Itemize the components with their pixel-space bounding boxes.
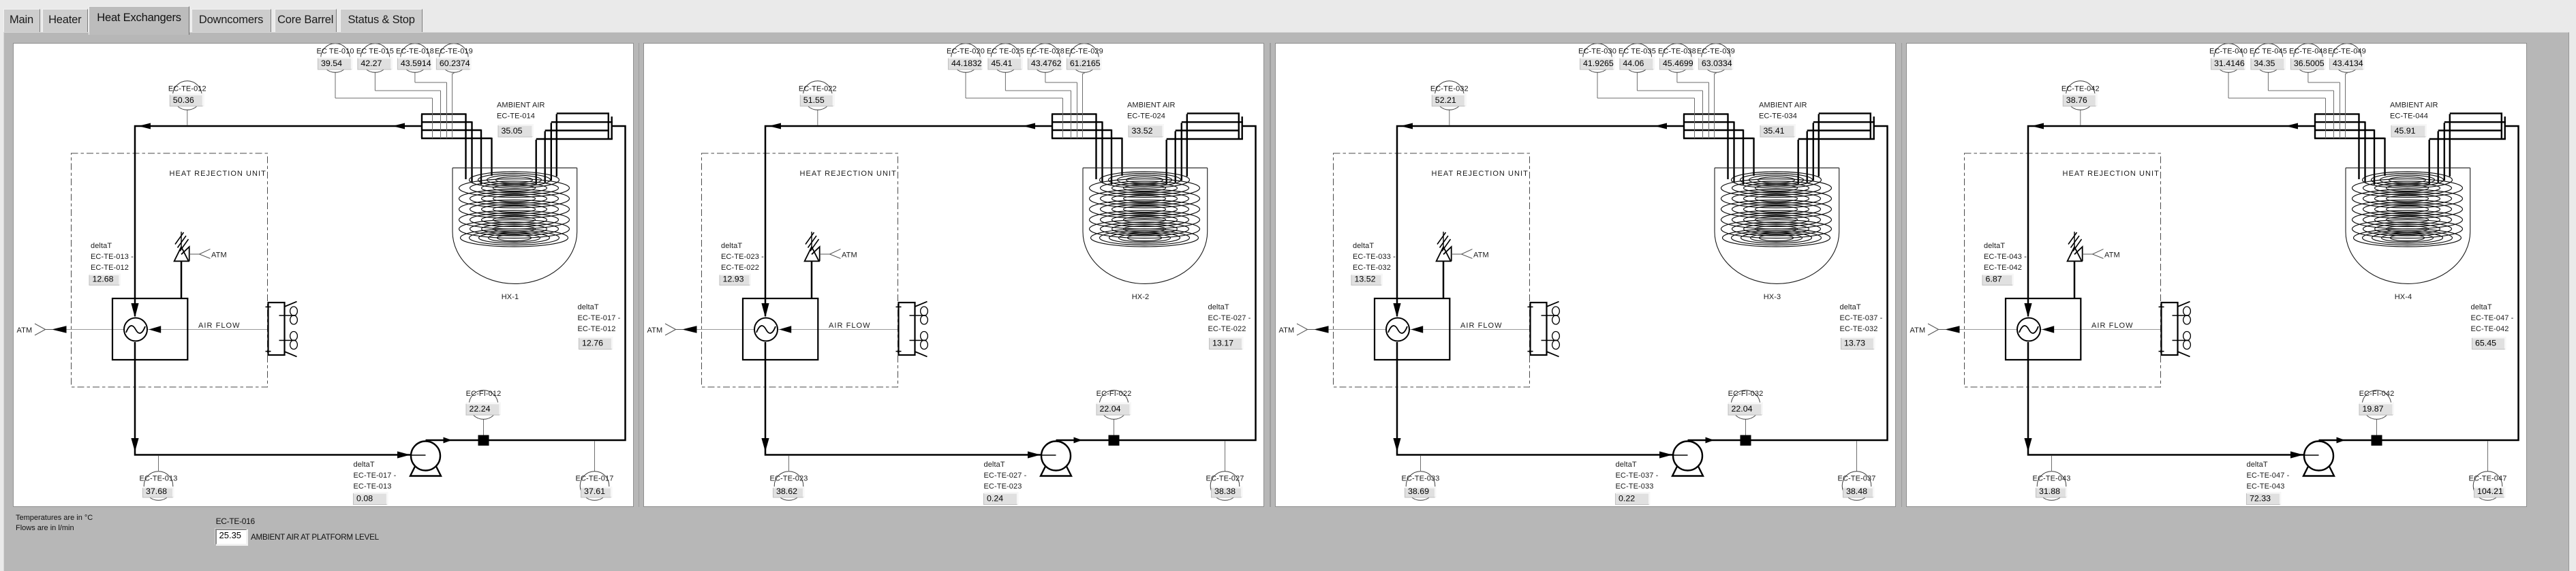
fan blades bottom — [290, 332, 297, 350]
svg-text:EC-TE-018: EC-TE-018 — [395, 48, 433, 56]
vessel shell HX — [453, 168, 577, 283]
instrument bubble EC-TE-040 — [2209, 44, 2325, 138]
instrument bubble EC TE-035 — [1619, 44, 1703, 138]
svg-text:EC-TE-032: EC-TE-032 — [1430, 85, 1469, 93]
svg-text:12.93: 12.93 — [723, 275, 744, 284]
svg-text:31.4146: 31.4146 — [2214, 59, 2245, 68]
label HX-1 — [501, 293, 518, 301]
svg-text:43.5914: 43.5914 — [400, 59, 431, 68]
flow sensor square EC-FI-022 — [1109, 435, 1120, 446]
instrument bubble EC-TE-043 — [2033, 456, 2071, 500]
label AIR FLOW — [198, 322, 241, 330]
instrument bubble EC-TE-029 — [1065, 44, 1103, 138]
helical coil tubes — [459, 172, 569, 247]
flow arrow left near corner — [138, 123, 151, 129]
wire coil feed pipes right — [2429, 114, 2450, 184]
svg-text:35.41: 35.41 — [1763, 126, 1784, 136]
label deltaT left block — [1351, 242, 1396, 285]
label temperature units note — [16, 513, 93, 534]
svg-text:HX-3: HX-3 — [1764, 293, 1781, 301]
svg-text:22.24: 22.24 — [469, 404, 490, 414]
fan blades bottom — [921, 332, 928, 350]
instrument bubble EC-TE-049 — [2328, 44, 2366, 138]
flow arrow left air out of blower — [1411, 326, 1423, 333]
node ATM vent right — [189, 249, 226, 260]
svg-text:deltaT: deltaT — [577, 303, 598, 311]
pump — [1041, 442, 1071, 476]
svg-text:EC-TE-024: EC-TE-024 — [1127, 112, 1165, 121]
helical coil tubes — [1090, 172, 1200, 247]
wire coil feed pipes left — [2359, 113, 2385, 185]
wire return pipe bottom — [765, 342, 1041, 455]
label AIR FLOW — [1460, 322, 1503, 330]
svg-text:ATM: ATM — [1278, 326, 1294, 335]
pump — [1672, 442, 1703, 476]
svg-text:45.41: 45.41 — [992, 59, 1013, 68]
svg-text:52.21: 52.21 — [1435, 95, 1456, 105]
svg-text:13.73: 13.73 — [1844, 339, 1865, 348]
svg-text:38.62: 38.62 — [776, 487, 797, 496]
instrument bubble EC-FI-032 — [1728, 390, 1764, 435]
label deltaT right block — [577, 303, 620, 350]
node ATM exhaust left — [647, 324, 697, 335]
svg-text:ATM: ATM — [16, 326, 32, 335]
svg-text:22.04: 22.04 — [1731, 404, 1752, 414]
flow arrow right into pump — [2290, 451, 2303, 458]
svg-text:EC TE-045: EC TE-045 — [2250, 48, 2287, 56]
svg-text:AIR FLOW: AIR FLOW — [198, 322, 241, 330]
relief vent valve — [805, 232, 820, 298]
svg-text:EC-TE-037: EC-TE-037 — [1837, 475, 1875, 483]
svg-text:EC TE-015: EC TE-015 — [356, 48, 393, 56]
svg-text:ATM: ATM — [211, 251, 227, 260]
svg-text:deltaT: deltaT — [1984, 242, 2005, 250]
instrument bubble EC-TE-023 — [770, 456, 808, 500]
panel HX-4 schematic — [1906, 43, 2527, 507]
svg-text:deltaT: deltaT — [2247, 461, 2268, 469]
svg-text:ATM: ATM — [2104, 251, 2120, 260]
flow arrow left mid pipe — [393, 123, 405, 129]
pump — [410, 442, 441, 476]
right tube header bundle — [536, 113, 612, 139]
svg-text:EC-TE-027 -: EC-TE-027 - — [1208, 314, 1251, 322]
svg-text:50.36: 50.36 — [172, 95, 194, 105]
instrument bubble EC TE-045 — [2250, 44, 2334, 138]
wire coil feed pipes right — [536, 114, 556, 184]
svg-text:EC-TE-028: EC-TE-028 — [1026, 48, 1064, 56]
svg-text:EC-TE-043: EC-TE-043 — [2247, 482, 2285, 491]
svg-text:45.91: 45.91 — [2395, 126, 2416, 136]
svg-text:EC-FI-022: EC-FI-022 — [1097, 390, 1132, 398]
instrument bubble EC-TE-018 — [395, 44, 446, 138]
flow arrow down into heat rejection unit — [1393, 438, 1400, 452]
instrument bubble EC-TE-019 — [434, 44, 472, 138]
tab Downcomers — [191, 9, 271, 32]
instrument bubble EC-FI-042 — [2359, 390, 2395, 435]
flow arrow left near corner — [1400, 123, 1413, 129]
svg-text:44.06: 44.06 — [1623, 59, 1644, 68]
flow arrow down into heat rejection unit — [131, 438, 138, 452]
left tube header bundle — [1052, 114, 1122, 138]
svg-text:13.52: 13.52 — [1354, 275, 1375, 284]
svg-text:HEAT REJECTION UNIT: HEAT REJECTION UNIT — [800, 170, 897, 178]
heat rejection unit dashed enclosure — [1965, 153, 2161, 387]
heat rejection unit box — [112, 298, 187, 360]
svg-text:EC-FI-032: EC-FI-032 — [1728, 390, 1764, 398]
fan blades bottom — [2183, 332, 2191, 350]
wire coil feed pipes left — [1097, 113, 1122, 185]
svg-text:72.33: 72.33 — [2250, 494, 2271, 504]
svg-text:HEAT REJECTION UNIT: HEAT REJECTION UNIT — [1431, 170, 1528, 178]
panel HX-1 schematic — [13, 43, 634, 507]
svg-text:EC-TE-017: EC-TE-017 — [575, 475, 613, 483]
svg-text:19.87: 19.87 — [2363, 404, 2384, 414]
svg-text:ATM: ATM — [842, 251, 857, 260]
node ATM exhaust left — [1278, 324, 1328, 335]
flow arrow right after pump — [1074, 437, 1083, 444]
svg-text:EC-TE-012: EC-TE-012 — [168, 85, 206, 93]
svg-text:EC-TE-037 -: EC-TE-037 - — [1839, 314, 1882, 322]
wire supply pipe top — [765, 126, 1052, 316]
svg-text:deltaT: deltaT — [1839, 303, 1860, 311]
svg-text:0.08: 0.08 — [356, 494, 373, 504]
left tube header bundle — [421, 114, 492, 138]
flow arrow left air out of blower — [149, 326, 161, 333]
helical coil tubes — [1721, 172, 1831, 247]
svg-text:EC-TE-014: EC-TE-014 — [497, 112, 535, 121]
svg-text:31.88: 31.88 — [2039, 487, 2060, 496]
svg-text:EC-TE-020: EC-TE-020 — [947, 48, 985, 56]
tab Heat Exchangers (active) — [89, 6, 190, 35]
flow arrow left air out of blower — [780, 326, 792, 333]
label deltaT left block — [1982, 242, 2027, 285]
svg-text:AMBIENT AIR: AMBIENT AIR — [1127, 102, 1176, 110]
instrument bubble EC-TE-020 — [947, 44, 1062, 138]
label ambient air EC-TE-034 — [1759, 102, 1807, 138]
svg-text:EC-TE-043 -: EC-TE-043 - — [1984, 253, 2027, 261]
svg-text:EC-FI-012: EC-FI-012 — [465, 390, 501, 398]
svg-text:AIR FLOW: AIR FLOW — [829, 322, 871, 330]
panel HX-2 schematic — [643, 43, 1264, 507]
svg-text:EC TE-025: EC TE-025 — [987, 48, 1024, 56]
svg-text:39.54: 39.54 — [321, 59, 342, 68]
svg-text:EC-TE-034: EC-TE-034 — [1759, 112, 1797, 121]
heat rejection unit dashed enclosure — [1333, 153, 1529, 387]
svg-text:EC-TE-022: EC-TE-022 — [799, 85, 837, 93]
svg-text:deltaT: deltaT — [1615, 461, 1636, 469]
heat rejection unit box — [1375, 298, 1450, 360]
flow arrow left air out of blower — [2042, 326, 2055, 333]
fan louver unit — [896, 302, 927, 357]
flow arrow left near corner — [769, 123, 781, 129]
label deltaT left block — [89, 242, 134, 285]
svg-text:42.27: 42.27 — [361, 59, 382, 68]
flow arrow right into pump — [1028, 451, 1041, 458]
label EC-TE-016 — [216, 516, 255, 526]
tab Heater — [42, 9, 89, 32]
flow arrow right into pump — [397, 451, 410, 458]
node ATM vent right — [1452, 249, 1489, 260]
svg-text:60.2374: 60.2374 — [439, 59, 470, 68]
flow arrow right into pump — [1659, 451, 1672, 458]
svg-text:deltaT: deltaT — [984, 461, 1005, 469]
instrument bubble EC-FI-012 — [465, 390, 501, 435]
instrument bubble EC-TE-033 — [1401, 456, 1439, 500]
svg-text:EC-TE-017 -: EC-TE-017 - — [353, 472, 396, 480]
svg-text:HEAT REJECTION UNIT: HEAT REJECTION UNIT — [169, 170, 266, 178]
svg-text:deltaT: deltaT — [1208, 303, 1229, 311]
label ambient air EC-TE-044 — [2390, 102, 2438, 138]
svg-text:EC-TE-030: EC-TE-030 — [1578, 48, 1616, 56]
numeric box EC-TE-016 value — [215, 529, 247, 545]
label ambient air at platform level — [251, 533, 379, 542]
fan blades top — [921, 307, 928, 324]
label deltaT bottom block — [984, 461, 1027, 505]
label deltaT right block — [1839, 303, 1882, 350]
wire supply pipe top — [135, 126, 421, 316]
right tube header bundle — [2429, 113, 2506, 139]
wire return pipe bottom — [1397, 342, 1672, 455]
node ATM vent right — [820, 249, 857, 260]
blower circle with coil symbol — [754, 318, 778, 341]
label HX-4 — [2395, 293, 2412, 301]
left tube header bundle — [2314, 114, 2385, 138]
svg-text:EC-TE-033: EC-TE-033 — [1615, 482, 1653, 491]
svg-text:deltaT: deltaT — [1353, 242, 1374, 250]
svg-text:EC-TE-032: EC-TE-032 — [1353, 264, 1391, 272]
relief vent valve — [174, 232, 189, 298]
instrument bubble EC-TE-039 — [1697, 44, 1735, 138]
svg-text:EC-TE-038: EC-TE-038 — [1658, 48, 1696, 56]
flow arrow left mid pipe — [1023, 123, 1035, 129]
node ATM vent right — [2083, 249, 2120, 260]
heat rejection unit box — [2006, 298, 2081, 360]
wire return pipe bottom — [135, 342, 410, 455]
panel separator line — [1270, 43, 1271, 507]
instrument bubble EC-TE-030 — [1578, 44, 1694, 138]
flow arrow down inside heat rejection unit box — [2025, 303, 2032, 318]
wire supply pipe top — [1397, 126, 1683, 316]
instrument bubble EC-TE-032 — [1430, 81, 1469, 125]
instrument bubble EC-TE-017 — [575, 442, 613, 501]
flow arrow down inside heat rejection unit box — [1393, 303, 1400, 318]
label deltaT bottom block — [2247, 461, 2290, 505]
svg-text:EC-TE-033: EC-TE-033 — [1401, 475, 1439, 483]
svg-text:EC-TE-012: EC-TE-012 — [91, 264, 129, 272]
wire coil feed pipes right — [1798, 114, 1819, 184]
instrument bubble EC-TE-012 — [168, 81, 206, 125]
relief vent valve — [1436, 232, 1451, 298]
wire coil feed pipes left — [1728, 113, 1753, 185]
flow arrow left mid pipe — [2286, 123, 2298, 129]
svg-text:EC-TE-027: EC-TE-027 — [1206, 475, 1244, 483]
svg-text:0.22: 0.22 — [1619, 494, 1635, 504]
svg-text:12.76: 12.76 — [582, 339, 603, 348]
svg-text:HX-2: HX-2 — [1132, 293, 1149, 301]
instrument bubble EC-TE-037 — [1837, 442, 1875, 501]
blower circle with coil symbol — [2017, 318, 2040, 341]
svg-text:EC TE-035: EC TE-035 — [1619, 48, 1656, 56]
svg-text:AIR FLOW: AIR FLOW — [2091, 322, 2134, 330]
wire air flow line — [1328, 329, 1539, 330]
svg-text:63.0334: 63.0334 — [1702, 59, 1732, 68]
fan louver unit — [2159, 302, 2190, 357]
wire return pipe bottom — [2028, 342, 2303, 455]
svg-text:0.24: 0.24 — [987, 494, 1003, 504]
label HX-3 — [1764, 293, 1781, 301]
svg-text:44.1832: 44.1832 — [951, 59, 982, 68]
svg-text:EC-TE-047 -: EC-TE-047 - — [2471, 314, 2514, 322]
svg-text:51.55: 51.55 — [803, 95, 825, 105]
flow arrow down into heat rejection unit — [2025, 438, 2032, 452]
wire coil feed pipes left — [465, 113, 491, 185]
svg-text:AIR FLOW: AIR FLOW — [1460, 322, 1503, 330]
flow arrow down inside heat rejection unit box — [762, 303, 769, 318]
svg-text:HEAT REJECTION UNIT: HEAT REJECTION UNIT — [2063, 170, 2160, 178]
wire coil feed pipes right — [1167, 114, 1187, 184]
instrument bubble EC-TE-038 — [1658, 44, 1709, 138]
svg-text:EC-TE-042: EC-TE-042 — [1984, 264, 2022, 272]
wire air flow line — [697, 329, 908, 330]
svg-text:EC-TE-029: EC-TE-029 — [1065, 48, 1103, 56]
label ambient air EC-TE-024 — [1127, 102, 1176, 138]
svg-text:33.52: 33.52 — [1132, 126, 1153, 136]
svg-text:43.4134: 43.4134 — [2333, 59, 2363, 68]
svg-text:EC-TE-013 -: EC-TE-013 - — [91, 253, 134, 261]
svg-text:6.87: 6.87 — [1986, 275, 2002, 284]
svg-text:HX-4: HX-4 — [2395, 293, 2412, 301]
wire pump discharge to downcomer riser — [2319, 126, 2519, 440]
wire air flow line — [1960, 329, 2171, 330]
fan blades bottom — [1552, 332, 1559, 350]
svg-text:EC-TE-032: EC-TE-032 — [1839, 325, 1877, 333]
svg-text:EC-TE-023 -: EC-TE-023 - — [721, 253, 764, 261]
svg-text:EC-TE-033 -: EC-TE-033 - — [1353, 253, 1396, 261]
svg-text:EC-TE-027 -: EC-TE-027 - — [984, 472, 1027, 480]
flow arrow left mid pipe — [1655, 123, 1667, 129]
svg-text:36.5005: 36.5005 — [2294, 59, 2325, 68]
svg-text:EC-TE-042: EC-TE-042 — [2061, 85, 2100, 93]
pump — [2303, 442, 2334, 476]
panel HX-3 schematic — [1275, 43, 1896, 507]
instrument bubble EC TE-010 — [316, 44, 432, 138]
flow arrow down inside heat rejection unit box — [131, 303, 138, 318]
flow arrow left near corner — [2031, 123, 2044, 129]
svg-text:61.2165: 61.2165 — [1070, 59, 1101, 68]
flow sensor square EC-FI-012 — [478, 435, 489, 446]
svg-text:deltaT: deltaT — [721, 242, 742, 250]
fan blades top — [2183, 307, 2191, 324]
wire pump discharge to downcomer riser — [1687, 126, 1887, 440]
label deltaT bottom block — [1615, 461, 1658, 505]
flow sensor square EC-FI-042 — [2372, 435, 2382, 446]
svg-text:EC-TE-047: EC-TE-047 — [2469, 475, 2507, 483]
svg-text:38.69: 38.69 — [1408, 487, 1429, 496]
svg-text:EC-TE-042: EC-TE-042 — [2471, 325, 2509, 333]
svg-text:38.48: 38.48 — [1846, 487, 1867, 496]
fan louver unit — [265, 302, 296, 357]
svg-text:EC-TE-037 -: EC-TE-037 - — [1615, 472, 1658, 480]
svg-text:13.17: 13.17 — [1212, 339, 1233, 348]
svg-text:EC-TE-049: EC-TE-049 — [2328, 48, 2366, 56]
heat rejection unit box — [743, 298, 818, 360]
svg-text:41.9265: 41.9265 — [1583, 59, 1614, 68]
svg-text:EC-TE-040: EC-TE-040 — [2209, 48, 2248, 56]
node ATM exhaust left — [16, 324, 66, 335]
svg-text:22.04: 22.04 — [1100, 404, 1121, 414]
label AIR FLOW — [2091, 322, 2134, 330]
flow arrow down into heat rejection unit — [762, 438, 769, 452]
tab Main — [3, 9, 40, 32]
svg-text:104.21: 104.21 — [2477, 487, 2503, 496]
svg-text:38.76: 38.76 — [2066, 95, 2087, 105]
svg-text:EC TE-010: EC TE-010 — [316, 48, 354, 56]
relief vent valve — [2068, 232, 2083, 298]
svg-text:38.38: 38.38 — [1214, 487, 1236, 496]
svg-text:EC-TE-022: EC-TE-022 — [721, 264, 759, 272]
svg-text:12.68: 12.68 — [92, 275, 113, 284]
label deltaT bottom block — [353, 461, 396, 505]
svg-text:35.05: 35.05 — [501, 126, 522, 136]
svg-text:EC-TE-012: EC-TE-012 — [577, 325, 615, 333]
svg-text:deltaT: deltaT — [2471, 303, 2492, 311]
svg-text:AMBIENT AIR: AMBIENT AIR — [1759, 102, 1807, 110]
fan louver unit — [1527, 302, 1559, 357]
instrument bubble EC-TE-028 — [1026, 44, 1077, 138]
right tube header bundle — [1167, 113, 1243, 139]
instrument bubble EC-TE-048 — [2289, 44, 2340, 138]
left tube header bundle — [1683, 114, 1754, 138]
svg-text:deltaT: deltaT — [91, 242, 112, 250]
svg-text:34.35: 34.35 — [2254, 59, 2275, 68]
instrument bubble EC-TE-047 — [2469, 442, 2507, 501]
svg-text:ATM: ATM — [1473, 251, 1489, 260]
svg-text:EC-TE-044: EC-TE-044 — [2390, 112, 2428, 121]
label ambient air EC-TE-014 — [497, 102, 545, 138]
svg-text:EC-FI-042: EC-FI-042 — [2359, 390, 2395, 398]
svg-text:EC-TE-019: EC-TE-019 — [434, 48, 472, 56]
instrument bubble EC-TE-013 — [139, 456, 177, 500]
label deltaT right block — [1208, 303, 1251, 350]
instrument bubble EC-TE-022 — [799, 81, 837, 125]
instrument bubble EC-FI-022 — [1097, 390, 1132, 435]
svg-text:AMBIENT AIR: AMBIENT AIR — [497, 102, 545, 110]
wire air flow line — [66, 329, 277, 330]
label deltaT left block — [720, 242, 764, 285]
flow arrow right after pump — [443, 437, 452, 444]
svg-text:37.61: 37.61 — [584, 487, 605, 496]
wire pump discharge to downcomer riser — [1056, 126, 1256, 440]
svg-text:45.4699: 45.4699 — [1663, 59, 1693, 68]
label AIR FLOW — [829, 322, 871, 330]
svg-text:EC-TE-047 -: EC-TE-047 - — [2247, 472, 2290, 480]
node ATM exhaust left — [1910, 324, 1960, 335]
svg-text:ATM: ATM — [1910, 326, 1926, 335]
instrument bubble EC TE-015 — [356, 44, 440, 138]
svg-text:43.4762: 43.4762 — [1031, 59, 1062, 68]
tab Core Barrel — [275, 9, 337, 32]
svg-text:EC-TE-023: EC-TE-023 — [770, 475, 808, 483]
helical coil tubes — [2352, 172, 2463, 247]
instrument bubble EC-TE-042 — [2061, 81, 2100, 125]
svg-text:EC-TE-022: EC-TE-022 — [1208, 325, 1246, 333]
instrument bubble EC-TE-027 — [1206, 442, 1244, 501]
tab Status & Stop — [340, 9, 423, 32]
svg-text:EC-TE-048: EC-TE-048 — [2289, 48, 2327, 56]
svg-text:EC-TE-013: EC-TE-013 — [353, 482, 391, 491]
wire pump discharge to downcomer riser — [425, 126, 625, 440]
heat rejection unit dashed enclosure — [71, 153, 267, 387]
